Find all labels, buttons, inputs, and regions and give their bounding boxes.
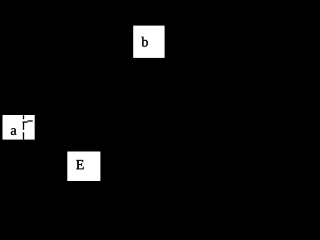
label b (141, 37, 147, 47)
wire (dashed vertical line over node a, segment 2) (23, 122, 24, 130)
node b (white box) (133, 26, 164, 58)
node E (white box) (67, 152, 100, 182)
label E (76, 160, 83, 169)
wire (dashed vertical line over node a, segment 3) (23, 132, 24, 139)
label a (11, 128, 17, 135)
wire (sloped line over node a) (23, 121, 28, 122)
wire (dashed vertical line over node a, segment 1) (23, 115, 24, 119)
node a (white box) (3, 115, 35, 140)
